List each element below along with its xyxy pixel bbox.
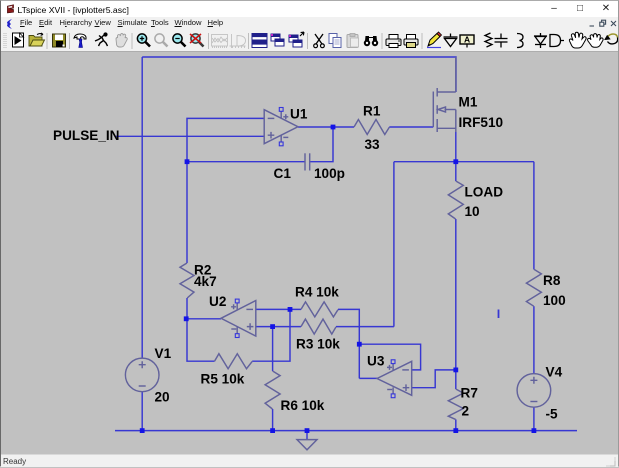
svg-text:2: 2 xyxy=(462,404,470,419)
svg-text:R4 10k: R4 10k xyxy=(295,285,339,300)
toolbar xyxy=(1,30,618,52)
svg-text:U2: U2 xyxy=(209,294,227,309)
wire junctions xyxy=(140,125,537,433)
wire C1 to output node xyxy=(310,127,333,162)
resistor button xyxy=(485,33,492,47)
waveform button (disabled) xyxy=(212,35,228,49)
toolbar gripper xyxy=(4,33,6,49)
wire PULSE_IN to U1 plus input xyxy=(116,135,264,137)
wire U2 output xyxy=(186,318,221,320)
voltage source V4 xyxy=(517,374,551,408)
wire R5 to minus branch xyxy=(252,309,290,361)
tile vertical button xyxy=(271,34,284,46)
resistor R4 xyxy=(301,302,338,317)
resistor R7 xyxy=(448,389,463,419)
svg-text:IRF510: IRF510 xyxy=(459,115,504,130)
wire (pencil) button xyxy=(427,32,442,48)
cut button xyxy=(314,34,325,48)
resistor R3 xyxy=(301,319,336,334)
open button xyxy=(29,33,47,49)
wire V4 to rail xyxy=(533,407,535,430)
LTspice app icon xyxy=(6,4,17,15)
capacitor button xyxy=(495,34,508,48)
op-amp U3 xyxy=(377,361,412,395)
wire LOAD bottom to R7 xyxy=(455,219,457,389)
resistor R2 xyxy=(180,263,194,298)
wire U3 feedback hook to minus input xyxy=(359,344,420,370)
status bar xyxy=(1,454,618,467)
component button xyxy=(550,35,564,47)
text cursor artifact xyxy=(498,310,500,319)
resistor R8 xyxy=(526,269,541,306)
title bar xyxy=(1,1,618,17)
wire R6 bottom xyxy=(272,409,274,431)
resistor R5 xyxy=(215,354,253,369)
capacitor C1 xyxy=(305,153,310,170)
wire R8 to V4 xyxy=(533,306,535,373)
tile horizontal button xyxy=(252,34,267,48)
svg-text:R6 10k: R6 10k xyxy=(281,398,325,413)
print preview button xyxy=(404,35,418,48)
wire U3 output xyxy=(359,377,377,379)
wire V1 feed vertical xyxy=(141,57,143,358)
wire R8 top xyxy=(533,162,535,270)
node U2 plus junction xyxy=(270,324,275,329)
undo button xyxy=(605,34,618,44)
resistor R6 xyxy=(265,371,280,409)
inductor button xyxy=(517,34,523,48)
diode button xyxy=(534,33,547,48)
svg-text:C1: C1 xyxy=(274,166,292,181)
wire U1 minus feed xyxy=(187,118,264,161)
wire ground rail xyxy=(115,430,577,432)
svg-text:R3 10k: R3 10k xyxy=(296,337,340,352)
resistor LOAD xyxy=(448,181,463,219)
node U3 feedback junction xyxy=(357,342,362,347)
wire M1 source down xyxy=(455,132,457,162)
svg-text:M1: M1 xyxy=(459,95,478,110)
separator xyxy=(421,33,423,49)
wire R3 right xyxy=(336,326,394,328)
zoom in button xyxy=(137,34,150,47)
svg-text:100: 100 xyxy=(543,293,566,308)
node ground rail junction xyxy=(305,428,310,433)
node R7 top junction xyxy=(453,368,458,373)
wire R6 top xyxy=(272,327,274,371)
svg-text:R5 10k: R5 10k xyxy=(201,372,245,387)
node R6 rail junction xyxy=(270,428,275,433)
wire R1 to M1 gate xyxy=(389,126,433,128)
resistor R1 xyxy=(354,120,389,135)
fft button (disabled) xyxy=(230,34,246,48)
svg-text:4k7: 4k7 xyxy=(194,274,217,289)
node M1 source junction xyxy=(453,159,458,164)
ground symbol button xyxy=(444,34,458,47)
schematic text labels xyxy=(53,95,566,422)
wire top rail xyxy=(142,57,456,92)
wire R7 to rail xyxy=(455,419,457,430)
transistor M1 xyxy=(433,57,456,132)
svg-text:10: 10 xyxy=(465,204,480,219)
svg-text:V1: V1 xyxy=(155,346,172,361)
wire node A down to R2 xyxy=(186,162,188,263)
node U1 output junction xyxy=(331,125,336,130)
node V1 rail junction xyxy=(140,428,145,433)
zoom out button xyxy=(173,34,186,47)
svg-text:V4: V4 xyxy=(546,365,563,380)
node A junction xyxy=(185,159,190,164)
svg-text:U1: U1 xyxy=(290,107,308,122)
wire R4 right to feedback vertical xyxy=(338,309,359,378)
svg-text:-5: -5 xyxy=(546,407,559,422)
svg-text:100p: 100p xyxy=(314,166,345,181)
separator xyxy=(69,33,71,49)
svg-text:R8: R8 xyxy=(543,273,561,288)
drag button xyxy=(588,34,604,48)
find button xyxy=(364,36,378,46)
wire node A to C1 xyxy=(187,161,305,163)
separator xyxy=(307,33,309,49)
control panel (hammer) button xyxy=(74,34,86,48)
zoom fit button xyxy=(190,34,204,47)
menu bar xyxy=(1,17,618,30)
svg-text:U3: U3 xyxy=(367,354,385,369)
node R7 rail junction xyxy=(453,428,458,433)
op-amp U1 xyxy=(264,110,298,144)
svg-text:LOAD: LOAD xyxy=(465,185,504,200)
wire R2 to U2 output node xyxy=(186,298,188,319)
svg-text:R1: R1 xyxy=(363,104,381,119)
save button xyxy=(53,34,66,47)
svg-text:20: 20 xyxy=(155,390,170,405)
move button xyxy=(569,32,586,48)
wire U2 output node down to R5 xyxy=(187,319,215,361)
svg-text:R7: R7 xyxy=(461,386,478,401)
separator xyxy=(248,33,250,49)
new file button xyxy=(13,33,24,47)
ground stub xyxy=(306,431,308,440)
wire U3 plus path xyxy=(412,370,456,388)
wire U2 minus input line xyxy=(256,308,301,310)
wire LOAD top lead xyxy=(455,162,457,181)
node U2 minus junction xyxy=(288,307,293,312)
paste button (disabled) xyxy=(347,34,359,48)
separator xyxy=(381,33,383,49)
op-amp power pin terminals xyxy=(235,108,395,398)
wire mid rail xyxy=(394,161,534,163)
svg-text:PULSE_IN: PULSE_IN xyxy=(53,128,119,143)
wire U1 output xyxy=(298,126,354,128)
cascade button xyxy=(289,32,304,47)
halt (hand, disabled) button xyxy=(116,34,127,47)
separator xyxy=(208,33,210,49)
separator xyxy=(131,33,133,49)
run button xyxy=(95,33,108,46)
voltage source V1 xyxy=(125,358,159,392)
node V4 rail junction xyxy=(532,428,537,433)
print button xyxy=(386,35,401,48)
wire V1 to rail xyxy=(141,392,143,431)
node U2 output junction xyxy=(184,316,189,321)
svg-text:33: 33 xyxy=(365,137,381,152)
zoom 100% button (disabled) xyxy=(155,34,168,47)
wire U2 plus input line xyxy=(256,326,301,328)
op-amp U2 xyxy=(221,301,256,337)
ground symbol xyxy=(297,440,317,450)
net label button xyxy=(460,35,474,48)
copy button xyxy=(329,34,341,48)
wire sense vertical to R3 xyxy=(393,162,395,327)
